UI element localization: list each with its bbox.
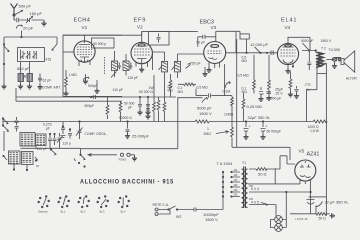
svg-text:EL41: EL41 bbox=[281, 18, 297, 24]
wire det to AVC bbox=[178, 97, 203, 99]
diode box EBC3 bbox=[240, 34, 249, 39]
padder block B1a bbox=[18, 74, 24, 82]
svg-text:Sc.3: Sc.3 bbox=[99, 210, 105, 214]
svg-text:V2: V2 bbox=[137, 25, 143, 30]
svg-text:62 pF: 62 pF bbox=[43, 79, 52, 83]
ground bottom sideways bbox=[330, 213, 335, 218]
ground screen b bbox=[145, 110, 150, 115]
caps osc left bbox=[15, 117, 19, 132]
svg-text:150 pF: 150 pF bbox=[30, 11, 43, 16]
dashed AVC feed bbox=[104, 57, 106, 74]
lamp wires bbox=[271, 205, 287, 228]
svg-text:V1: V1 bbox=[82, 25, 88, 30]
resistor EL41 grid leak bbox=[253, 55, 256, 94]
svg-text:Sc.2: Sc.2 bbox=[80, 210, 86, 214]
series cap grid line bbox=[271, 50, 273, 55]
IFT1 winding b bbox=[123, 61, 129, 71]
screen caps a bbox=[138, 97, 142, 110]
node V4 pin dot bbox=[292, 65, 294, 67]
tube V5 pins bbox=[300, 180, 311, 193]
tube V1 pins bbox=[79, 60, 90, 66]
osc coil box b bbox=[36, 134, 47, 146]
resistor avc to bus bbox=[119, 101, 122, 121]
heater wire 4V bbox=[249, 199, 276, 205]
svg-text:500 pF: 500 pF bbox=[19, 4, 32, 9]
svg-text:0,25 MΩ.: 0,25 MΩ. bbox=[247, 104, 263, 109]
switch diagram S3 bbox=[78, 196, 90, 208]
elco filter b bbox=[261, 122, 266, 135]
coupling cap 5000pF bbox=[209, 93, 211, 97]
mains terminal a bbox=[155, 208, 158, 211]
ground left column bbox=[1, 84, 6, 89]
svg-text:COMP. ANT.: COMP. ANT. bbox=[42, 86, 61, 90]
tube V1 ECH4 envelope bbox=[74, 41, 95, 62]
lamp L1 bbox=[275, 216, 283, 224]
wire top bus bbox=[63, 31, 198, 35]
ground cap V4 right bbox=[294, 94, 299, 99]
mains terminal b bbox=[155, 213, 158, 216]
pickup terminal a bbox=[120, 153, 123, 156]
svg-text:T A 1904: T A 1904 bbox=[217, 161, 233, 166]
svg-text:COMP. OSCIL.: COMP. OSCIL. bbox=[85, 132, 108, 136]
svg-text:415: 415 bbox=[46, 58, 52, 62]
lamp L2 bbox=[275, 224, 283, 232]
speaker cone bbox=[341, 51, 355, 72]
ground padder a bbox=[18, 84, 23, 89]
ground V2 center pin bbox=[139, 67, 144, 72]
IFT2 winding b bbox=[175, 61, 181, 72]
resistor EL41 cathode bbox=[268, 55, 271, 94]
cap V2 cathode bbox=[146, 104, 150, 114]
switch S1a arm bbox=[15, 10, 23, 14]
caps osc mid bbox=[48, 134, 57, 145]
wires padder bbox=[21, 62, 41, 85]
svg-text:50 Ω: 50 Ω bbox=[258, 172, 267, 177]
series cap AVC bbox=[90, 96, 92, 98]
switch S1c arm right bbox=[52, 37, 57, 50]
arrow heater lamps bbox=[261, 203, 268, 206]
svg-text:B1: B1 bbox=[24, 74, 29, 79]
bottom bus bbox=[290, 206, 316, 214]
speaker voice coil bbox=[332, 58, 341, 61]
svg-text:1500 V: 1500 V bbox=[199, 111, 212, 116]
node bus dot bbox=[20, 36, 22, 38]
curl arrow cap bbox=[202, 97, 208, 102]
ground V4 center pin bbox=[285, 69, 290, 74]
IFT coupling box top bbox=[149, 31, 170, 45]
ground screen a bbox=[137, 110, 142, 115]
pickup arrow line bbox=[88, 154, 117, 157]
wire AVC bus bbox=[16, 96, 176, 98]
node antenna junction bbox=[13, 14, 16, 17]
svg-text:110 pF: 110 pF bbox=[37, 147, 47, 151]
svg-text:INT.: INT. bbox=[176, 215, 182, 219]
tube V1 electrodes bbox=[77, 47, 92, 55]
svg-text:25 V.: 25 V. bbox=[276, 91, 284, 95]
IFT2 leads bbox=[153, 52, 204, 78]
wire B+ right link bbox=[311, 196, 327, 198]
field coil link bbox=[307, 74, 317, 122]
wire lower box right bbox=[232, 147, 290, 160]
capacitor series input bbox=[17, 18, 19, 22]
svg-text:6 V 4: 6 V 4 bbox=[251, 187, 259, 191]
ground diode bbox=[202, 72, 207, 77]
IFT2 winding a bbox=[162, 61, 168, 72]
wire V1 grid left bbox=[63, 51, 74, 53]
resistor V2 screen bbox=[163, 78, 166, 122]
transformer T1 secondary winding bbox=[245, 169, 247, 207]
switch detail marks bbox=[4, 156, 40, 166]
wire lower box left bbox=[81, 97, 178, 155]
osc coil box a bbox=[20, 133, 35, 147]
svg-text:EF9: EF9 bbox=[134, 18, 147, 24]
wire lamp feed bbox=[285, 192, 287, 215]
transformer core bbox=[244, 167, 246, 209]
wire EBC3 box link bbox=[236, 31, 247, 53]
wire V2 plate top bbox=[141, 31, 143, 42]
svg-text:+: + bbox=[249, 125, 251, 129]
coil box c lower bbox=[9, 151, 21, 164]
trimmer cap L1a bbox=[21, 50, 26, 60]
svg-text:50000 Ω: 50000 Ω bbox=[119, 116, 132, 120]
wire V3 top cap bbox=[216, 31, 236, 52]
screen caps b bbox=[146, 97, 150, 110]
svg-text:RETE C.A.: RETE C.A. bbox=[153, 203, 170, 207]
ground AVC branch bbox=[94, 89, 99, 94]
trimmer 500pF bbox=[84, 77, 90, 81]
cap in coupling box bbox=[157, 34, 161, 43]
tube V4 pins bbox=[288, 64, 293, 69]
svg-text:50 Ω: 50 Ω bbox=[319, 217, 327, 221]
switch osc arm b bbox=[3, 122, 9, 132]
svg-text:0,5 MΩ: 0,5 MΩ bbox=[197, 86, 208, 90]
wire HT to AZ41 bbox=[280, 156, 295, 169]
resistor series 2M bbox=[195, 120, 209, 123]
svg-text:50 000 Ω: 50 000 Ω bbox=[139, 90, 153, 94]
svg-text:Sc.4: Sc.4 bbox=[120, 210, 126, 214]
mains switch INT bbox=[158, 206, 186, 210]
resistor 0,25M bbox=[242, 93, 245, 122]
svg-text:500pF: 500pF bbox=[85, 104, 95, 108]
pickup terminal b bbox=[127, 153, 130, 156]
switch diagram S1 bbox=[38, 196, 50, 208]
svg-text:pF: pF bbox=[128, 106, 132, 110]
ground V1 grid bbox=[63, 91, 68, 96]
ground padder b bbox=[27, 84, 32, 89]
trimmer arrow IFT1 bbox=[111, 72, 117, 78]
svg-text:1500 V: 1500 V bbox=[205, 217, 218, 222]
tube V5 AZ41 envelope bbox=[295, 160, 316, 181]
resistor under V4 bbox=[289, 72, 292, 93]
wire grid bus y37 bbox=[4, 15, 57, 37]
resistor V2 cathode bbox=[153, 75, 156, 122]
tap labels bbox=[234, 170, 239, 197]
tube V4 electrodes bbox=[281, 50, 296, 56]
trimmer 20pF arc bbox=[16, 25, 22, 29]
volume pot resistor bbox=[231, 122, 234, 148]
HT resistor 50ohm bbox=[249, 168, 280, 171]
wire EBC3 cathode drop bbox=[224, 64, 226, 96]
svg-text:1: 1 bbox=[207, 127, 209, 131]
wire det out line bbox=[196, 89, 232, 96]
trimmer cap L1b bbox=[26, 51, 30, 59]
cap column osc a bbox=[61, 122, 66, 138]
wire EBC3 right drop bbox=[236, 39, 238, 147]
tube V2 pins bbox=[136, 61, 148, 67]
tube V3 EBC3 envelope bbox=[204, 42, 226, 64]
svg-text:9000 pF: 9000 pF bbox=[301, 39, 313, 43]
output transformer T2 winding bbox=[316, 53, 323, 68]
svg-text:/2a: /2a bbox=[306, 88, 310, 92]
coil box L1 bbox=[18, 48, 45, 62]
ground V3 pin bbox=[206, 68, 211, 73]
elco 32uF B+ bbox=[307, 197, 315, 204]
svg-text:x 4,5 R. 45: x 4,5 R. 45 bbox=[295, 217, 308, 221]
heater wire 6V bbox=[249, 186, 311, 192]
resistor 50ohm bottom bbox=[316, 212, 326, 215]
svg-text:1500 V: 1500 V bbox=[321, 39, 332, 43]
svg-text:2MΩ: 2MΩ bbox=[204, 132, 212, 136]
comp oscil trimmer bbox=[76, 122, 83, 140]
ground kath b bbox=[266, 96, 271, 101]
switch diagram S4 bbox=[97, 196, 109, 208]
svg-text:MΩ.: MΩ. bbox=[242, 90, 248, 94]
svg-text:MΩ: MΩ bbox=[168, 89, 174, 93]
cap 62pF bbox=[38, 74, 42, 83]
wire V2 cathode drop bbox=[152, 52, 154, 70]
secondary tap column bbox=[230, 171, 232, 198]
IFT1 winding a bbox=[112, 61, 118, 71]
wire trimmer to bus bbox=[4, 31, 22, 57]
tap wires bbox=[232, 172, 241, 197]
wire grid line EL41 bbox=[226, 52, 277, 54]
svg-text:500pF: 500pF bbox=[88, 84, 98, 88]
svg-text:Gamma: Gamma bbox=[38, 210, 48, 214]
switch S1b arm bbox=[4, 45, 9, 52]
svg-text:12 000 pF: 12 000 pF bbox=[250, 42, 269, 47]
svg-text:110 pF: 110 pF bbox=[113, 88, 123, 92]
tone arc 0,1M bbox=[225, 81, 230, 88]
primary tap column bbox=[222, 171, 224, 210]
svg-text:T 2: T 2 bbox=[321, 47, 326, 51]
plate load box bbox=[92, 38, 115, 48]
tube V2 EF9 envelope bbox=[131, 42, 152, 63]
cap column osc b bbox=[68, 128, 72, 139]
trimmer cap L1c bbox=[32, 51, 36, 59]
svg-text:FONO: FONO bbox=[119, 158, 127, 162]
ground under V4 bbox=[288, 92, 293, 97]
svg-text:125 pF: 125 pF bbox=[128, 76, 139, 80]
wire plate to OT bbox=[288, 37, 316, 52]
resistor 1000 ohm field bbox=[290, 120, 327, 123]
resistor 0,5M horizontal bbox=[178, 83, 196, 86]
arrow to elco bbox=[316, 202, 323, 208]
padder block B1b bbox=[27, 74, 33, 82]
wire B+ bus bbox=[3, 121, 290, 123]
cap EL41 kath b bbox=[267, 92, 272, 96]
tube V2 electrodes bbox=[134, 49, 150, 55]
wire right bus bbox=[325, 74, 327, 214]
elco 25uF bbox=[259, 87, 264, 97]
small marks above title bbox=[81, 155, 86, 160]
antenna ANT bbox=[11, 4, 18, 16]
resistor 1M grid leak bbox=[65, 70, 68, 91]
ground V1 cathode bbox=[83, 79, 88, 84]
svg-text:0,1M.: 0,1M. bbox=[223, 90, 232, 94]
svg-text:V3: V3 bbox=[211, 25, 217, 30]
wire V1 top bbox=[84, 35, 86, 41]
output transformer box bbox=[317, 63, 326, 73]
pointer 50000pF bbox=[303, 43, 309, 50]
svg-text:20 pF: 20 pF bbox=[23, 26, 34, 31]
resistor AVC to gnd bbox=[106, 97, 109, 119]
cap 750pF arrow bbox=[186, 63, 191, 68]
wire speaker to OT bbox=[326, 59, 331, 61]
svg-text:μF: μF bbox=[46, 126, 50, 130]
wire AZ41 B+ down bbox=[310, 192, 312, 214]
cap 10000pF mains bbox=[158, 208, 223, 215]
transformer T1 primary winding bbox=[242, 169, 244, 207]
ground speaker bbox=[332, 64, 337, 69]
cap across primary bbox=[307, 51, 311, 71]
cap 25000 bbox=[126, 122, 130, 134]
svg-text:1735: 1735 bbox=[305, 83, 312, 87]
pointer 10000pF bbox=[255, 47, 260, 53]
coil box d lower bbox=[22, 152, 34, 165]
elco filter a bbox=[244, 122, 249, 135]
IFT1 leads bbox=[115, 51, 127, 77]
stage box V1 bbox=[63, 35, 122, 96]
svg-text:50 000μF: 50 000μF bbox=[267, 130, 281, 134]
switch diagram S5 bbox=[118, 196, 130, 208]
screen resistor vertical bbox=[157, 97, 160, 122]
resistor det 0,1M bbox=[169, 74, 172, 97]
IFT1 trimmer b bbox=[129, 63, 132, 70]
svg-text:5000 pF: 5000 pF bbox=[197, 106, 212, 111]
tone pot resistor bbox=[231, 96, 234, 122]
svg-text:1 MΩ: 1 MΩ bbox=[69, 73, 78, 77]
svg-text:ECH4: ECH4 bbox=[74, 18, 91, 24]
ground pickup bbox=[132, 156, 137, 161]
IFT1 trimmer a bbox=[118, 63, 121, 70]
svg-text:T1: T1 bbox=[242, 161, 246, 165]
svg-text:32 μF 350 VL: 32 μF 350 VL bbox=[325, 199, 350, 204]
wire left drop lower bbox=[3, 56, 5, 84]
grid cap 50pF bbox=[198, 35, 216, 47]
svg-text:+: + bbox=[266, 125, 268, 129]
svg-text:MΩ: MΩ bbox=[242, 59, 248, 63]
wire antenna row bbox=[14, 15, 44, 21]
ground elco bbox=[258, 97, 263, 102]
ground V2 cathode cap bbox=[145, 114, 150, 119]
svg-text:AZ41: AZ41 bbox=[307, 152, 320, 158]
svg-text:0,5 MΩ.: 0,5 MΩ. bbox=[238, 73, 250, 77]
wire AZ41 plate loop bbox=[248, 168, 300, 184]
svg-text:V5: V5 bbox=[299, 149, 305, 154]
svg-text:25 000μF: 25 000μF bbox=[132, 134, 150, 139]
trimmer osc right bbox=[57, 133, 63, 143]
wire box bottom bbox=[16, 88, 122, 101]
svg-text:32μF 350 XL: 32μF 350 XL bbox=[248, 115, 272, 120]
switch arm osc mid bbox=[51, 150, 56, 155]
ground comp ant bbox=[37, 85, 42, 90]
cap V4 right bbox=[295, 86, 299, 94]
svg-text:750 pF: 750 pF bbox=[190, 62, 201, 66]
wire osc bottom bbox=[4, 131, 81, 151]
trimmer capacitor 150pF bbox=[26, 17, 33, 24]
svg-text:4 V 5: 4 V 5 bbox=[251, 201, 259, 205]
svg-text:MΩ: MΩ bbox=[178, 90, 184, 94]
tube V3 electrodes bbox=[211, 45, 219, 48]
volume pot arrow bbox=[216, 131, 228, 134]
ground antenna trim bbox=[41, 21, 46, 26]
svg-text:ALTOP.: ALTOP. bbox=[346, 77, 358, 81]
ground filter a bbox=[243, 135, 248, 140]
svg-text:ALLOCCHIO BACCHINI - 915: ALLOCCHIO BACCHINI - 915 bbox=[80, 179, 174, 186]
tube V4 EL41 envelope bbox=[277, 43, 298, 64]
svg-text:110 p: 110 p bbox=[63, 142, 71, 146]
ground 25000 bbox=[125, 134, 130, 139]
svg-text:TU 508: TU 508 bbox=[329, 48, 340, 52]
tube V3 pins bbox=[209, 63, 220, 69]
svg-text:50 pF: 50 pF bbox=[197, 41, 206, 45]
ground filter b bbox=[260, 135, 265, 140]
switch osc arm a bbox=[3, 119, 8, 124]
tube V5 electrodes bbox=[300, 161, 311, 177]
trimmer arrows IFT2 bbox=[159, 65, 176, 70]
switch diagram S2 bbox=[58, 196, 70, 208]
svg-text:V4: V4 bbox=[285, 25, 291, 30]
svg-text:Sc.1: Sc.1 bbox=[60, 210, 66, 214]
svg-text:562 pF: 562 pF bbox=[17, 66, 30, 71]
leads below coil boxes bbox=[14, 164, 27, 170]
svg-text:25 000 μF: 25 000 μF bbox=[266, 96, 281, 100]
svg-text:1,5 W: 1,5 W bbox=[310, 129, 320, 133]
svg-text:50 000 p: 50 000 p bbox=[93, 42, 106, 46]
